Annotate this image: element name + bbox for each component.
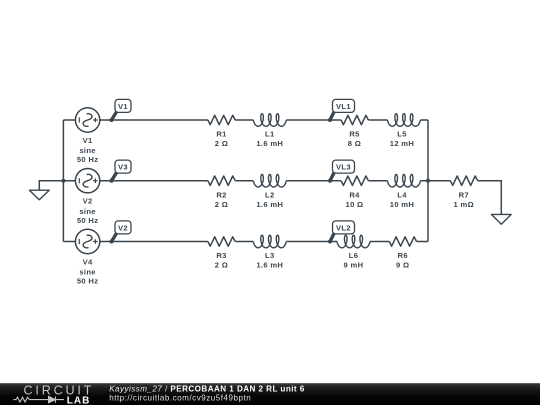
- voltmeter probe V2: [110, 221, 132, 244]
- voltmeter probe V1: [110, 99, 132, 122]
- svg-text:R1: R1: [216, 130, 227, 139]
- svg-text:VL3: VL3: [336, 163, 351, 172]
- svg-text:http://circuitlab.com/cv9zu5f4: http://circuitlab.com/cv9zu5f49bptn: [109, 394, 251, 403]
- svg-text:R5: R5: [349, 130, 360, 139]
- voltage source V1 sine 50 Hz: [75, 108, 99, 164]
- svg-text:VL2: VL2: [336, 224, 351, 233]
- voltmeter probe VL2: [328, 221, 355, 244]
- svg-text:sine: sine: [79, 268, 96, 277]
- svg-text:10 mH: 10 mH: [390, 200, 414, 209]
- voltage source V2 sine 50 Hz: [75, 169, 99, 225]
- resistor R5: [341, 115, 368, 124]
- svg-text:L1: L1: [265, 130, 275, 139]
- svg-text:9 Ω: 9 Ω: [396, 261, 409, 270]
- svg-text:R2: R2: [216, 191, 226, 200]
- svg-text:L5: L5: [397, 130, 407, 139]
- svg-text:VL1: VL1: [336, 102, 351, 111]
- voltmeter probe VL3: [328, 160, 355, 183]
- svg-text:V1: V1: [118, 102, 128, 111]
- svg-text:1.6 mH: 1.6 mH: [256, 200, 283, 209]
- svg-text:12 mH: 12 mH: [390, 139, 414, 148]
- ground (right): [491, 214, 511, 224]
- wire left bus vertical: [62, 120, 64, 242]
- svg-text:V1: V1: [83, 136, 93, 145]
- resistor R3: [208, 237, 235, 246]
- resistor R7: [450, 176, 477, 185]
- svg-text:V3: V3: [118, 163, 128, 172]
- junction dot left bus / ground tee: [61, 179, 65, 183]
- voltmeter probe V3: [110, 160, 132, 183]
- inductor L2: [253, 174, 286, 187]
- svg-text:LAB: LAB: [67, 395, 91, 405]
- wire R7 to right ground: [478, 181, 502, 215]
- svg-text:sine: sine: [79, 207, 96, 216]
- inductor L1: [253, 114, 286, 127]
- logo resistor-diode glyph: [14, 396, 65, 402]
- svg-text:V2: V2: [83, 197, 93, 206]
- wire right bus vertical: [427, 120, 429, 242]
- wire row 2 segments: [63, 180, 428, 182]
- svg-text:1 mΩ: 1 mΩ: [454, 200, 475, 209]
- svg-text:sine: sine: [79, 146, 96, 155]
- inductor L6: [337, 235, 370, 248]
- wire row 1 segments: [63, 119, 428, 121]
- voltage source V4 sine 50 Hz: [75, 229, 99, 285]
- svg-text:10 Ω: 10 Ω: [346, 200, 364, 209]
- svg-text:R3: R3: [216, 251, 226, 260]
- svg-text:V2: V2: [118, 224, 128, 233]
- footer bar: [0, 383, 540, 405]
- resistor R2: [208, 176, 235, 185]
- svg-text:1.6 mH: 1.6 mH: [256, 261, 283, 270]
- svg-text:2 Ω: 2 Ω: [215, 261, 228, 270]
- resistor R4: [341, 176, 368, 185]
- svg-text:R7: R7: [459, 191, 469, 200]
- svg-text:2 Ω: 2 Ω: [215, 200, 228, 209]
- resistor R1: [208, 115, 235, 124]
- svg-text:R4: R4: [349, 191, 360, 200]
- svg-text:8 Ω: 8 Ω: [348, 139, 361, 148]
- svg-text:1.6 mH: 1.6 mH: [256, 139, 283, 148]
- wire bus to R7: [428, 180, 450, 182]
- svg-text:50 Hz: 50 Hz: [77, 277, 99, 286]
- wire to left ground: [39, 181, 63, 191]
- wire row 3 segments: [63, 241, 428, 243]
- resistor R6: [389, 237, 416, 246]
- svg-text:Kayyissm_27 / PERCOBAAN 1 DAN: Kayyissm_27 / PERCOBAAN 1 DAN 2 RL unit …: [109, 384, 305, 393]
- inductor L3: [253, 235, 286, 248]
- voltmeter probe VL1: [328, 99, 355, 122]
- ground (left): [29, 190, 49, 200]
- wire row 3 fixups: [359, 233, 361, 235]
- svg-text:2 Ω: 2 Ω: [215, 139, 228, 148]
- svg-text:R6: R6: [398, 251, 408, 260]
- inductor L4: [387, 174, 420, 187]
- svg-text:V4: V4: [83, 257, 93, 266]
- svg-text:L3: L3: [265, 251, 275, 260]
- svg-text:L2: L2: [265, 191, 275, 200]
- svg-text:50 Hz: 50 Hz: [77, 216, 99, 225]
- svg-text:50 Hz: 50 Hz: [77, 155, 99, 164]
- junction dot right bus / R7 tee: [426, 179, 430, 183]
- svg-text:9 mH: 9 mH: [344, 261, 364, 270]
- svg-text:L6: L6: [349, 251, 359, 260]
- svg-text:L4: L4: [397, 191, 407, 200]
- inductor L5: [387, 114, 420, 127]
